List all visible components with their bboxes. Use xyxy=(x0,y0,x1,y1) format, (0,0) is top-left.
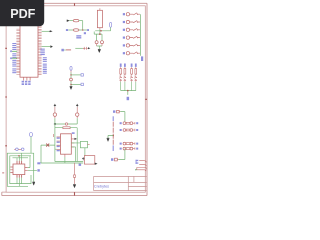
wire U4 pin stubs xyxy=(17,153,37,186)
IC U3 body xyxy=(82,156,95,165)
arrow U3 right xyxy=(95,163,97,165)
resistor R5 xyxy=(135,64,137,76)
U1 left pins xyxy=(16,29,20,74)
wire U1 right A xyxy=(42,30,53,32)
U1 right pin labels xyxy=(40,49,44,50)
ground chain X1 xyxy=(70,86,73,89)
oscillator Y1 xyxy=(30,132,33,153)
label U3 xyxy=(79,164,82,166)
junction LED bus xyxy=(127,90,129,92)
tick left border xyxy=(2,172,4,174)
switch S1 xyxy=(123,13,140,16)
junction xyxy=(82,29,84,31)
ground U4 xyxy=(32,182,35,185)
crystal load rail xyxy=(94,32,102,41)
capacitor C4 xyxy=(70,78,73,81)
junction loop xyxy=(18,155,20,157)
resistor R7 xyxy=(74,163,76,185)
U2 top label xyxy=(72,132,75,134)
wire caps bottom xyxy=(97,46,102,49)
IC U4 body xyxy=(13,164,25,175)
arrow U2 right xyxy=(74,138,76,140)
node stub left B xyxy=(10,57,17,59)
sheet outer frame xyxy=(2,3,147,195)
header row F xyxy=(111,149,125,161)
jumper JP1 xyxy=(120,122,139,125)
ground crystal xyxy=(98,49,101,52)
node stub left A xyxy=(10,50,17,52)
connector J2 xyxy=(135,160,147,171)
LED D1 xyxy=(119,76,121,91)
supply arrow chain R xyxy=(76,104,78,107)
LED D3 xyxy=(130,76,132,91)
resistor R1 xyxy=(97,8,102,29)
label rail xyxy=(141,56,143,61)
relay K1 xyxy=(80,141,89,147)
node label right of R1 xyxy=(110,22,112,31)
LED D4 xyxy=(135,76,137,91)
switch S5 xyxy=(123,44,140,47)
U1 bottom pins xyxy=(24,77,30,80)
pad A xyxy=(81,74,83,76)
wire P1 gnd xyxy=(108,136,113,139)
ground R7 xyxy=(73,184,76,187)
connector pads top U4 xyxy=(14,148,24,151)
wire fuse join xyxy=(82,21,84,30)
IC U2 body xyxy=(61,134,72,154)
wire vert B xyxy=(76,128,78,162)
resistor R3 xyxy=(124,64,126,76)
node label near crystal xyxy=(84,32,86,34)
ground P1 xyxy=(107,138,110,141)
wire R1 bottom xyxy=(95,29,110,31)
switch S6 xyxy=(123,52,140,55)
wire switch rail xyxy=(140,14,142,56)
node D stub xyxy=(61,49,71,52)
switch S2 xyxy=(123,20,140,23)
wire chain bus xyxy=(55,118,77,124)
junction R1 xyxy=(100,30,102,32)
U4 right pins xyxy=(25,168,28,171)
wire chain X1 xyxy=(70,70,72,72)
wire to pad A xyxy=(71,74,81,76)
junction crystal top xyxy=(99,33,101,35)
jumper JP4 xyxy=(120,147,139,150)
pin strip P1 xyxy=(112,116,114,151)
node chain X1 top xyxy=(70,66,72,70)
U4 bottom pins xyxy=(17,175,22,178)
U1 left pin labels xyxy=(12,43,16,44)
switch S3 xyxy=(123,28,140,31)
sheet inner frame xyxy=(6,6,145,192)
pin1 mark xyxy=(53,134,55,137)
IC U1 body xyxy=(20,23,38,78)
U1 bottom pin labels xyxy=(22,81,24,83)
U4 top pins xyxy=(17,161,22,164)
no-connect X xyxy=(46,144,49,147)
wire LED bus xyxy=(121,91,136,95)
jumper JP3 xyxy=(120,142,139,145)
wire U1 right B xyxy=(42,45,53,48)
wire to pad B xyxy=(71,84,81,86)
U2 pin labels xyxy=(57,137,60,138)
resistor R4 xyxy=(131,64,133,76)
label U4 right xyxy=(37,169,39,171)
capacitor C1 xyxy=(95,41,98,46)
PDF badge xyxy=(0,0,44,26)
junction xyxy=(70,74,71,75)
capacitor C2 xyxy=(101,41,104,46)
jumper JP2 xyxy=(120,129,139,132)
capacitor C5 xyxy=(53,107,56,118)
resistor R2 xyxy=(120,64,122,76)
svg-text:Crebytes: Crebytes xyxy=(94,184,109,188)
wire U2 to K1 xyxy=(65,143,85,163)
frame tick marks xyxy=(5,3,147,195)
resistor R6 xyxy=(55,127,77,129)
fuse F2 xyxy=(66,29,89,32)
fuse F1 xyxy=(67,19,83,22)
wire U4 loop inner xyxy=(13,157,29,159)
capacitor C3 xyxy=(75,47,90,50)
U1 right pins xyxy=(38,26,42,74)
svg-text:PDF: PDF xyxy=(10,7,35,21)
wire U4 loop outer xyxy=(7,153,33,186)
wire nc xyxy=(41,145,83,163)
supply arrow chain L xyxy=(54,104,56,107)
title block xyxy=(94,176,147,190)
LED D2 xyxy=(124,76,126,91)
U2 left pins xyxy=(57,137,61,150)
junction x xyxy=(54,123,56,125)
switch S4 xyxy=(123,36,140,39)
no-connect ring xyxy=(65,123,67,125)
pad B xyxy=(81,83,83,85)
label C3 xyxy=(76,35,81,36)
wire left drop xyxy=(55,124,83,162)
label LED bus xyxy=(127,97,130,100)
U2 right pins xyxy=(65,139,74,157)
capacitor C6 xyxy=(76,107,79,118)
U4 left pins xyxy=(10,167,13,173)
header J1 row A xyxy=(113,110,125,121)
wire U4 loop mid xyxy=(10,156,31,184)
label nc xyxy=(37,162,40,164)
